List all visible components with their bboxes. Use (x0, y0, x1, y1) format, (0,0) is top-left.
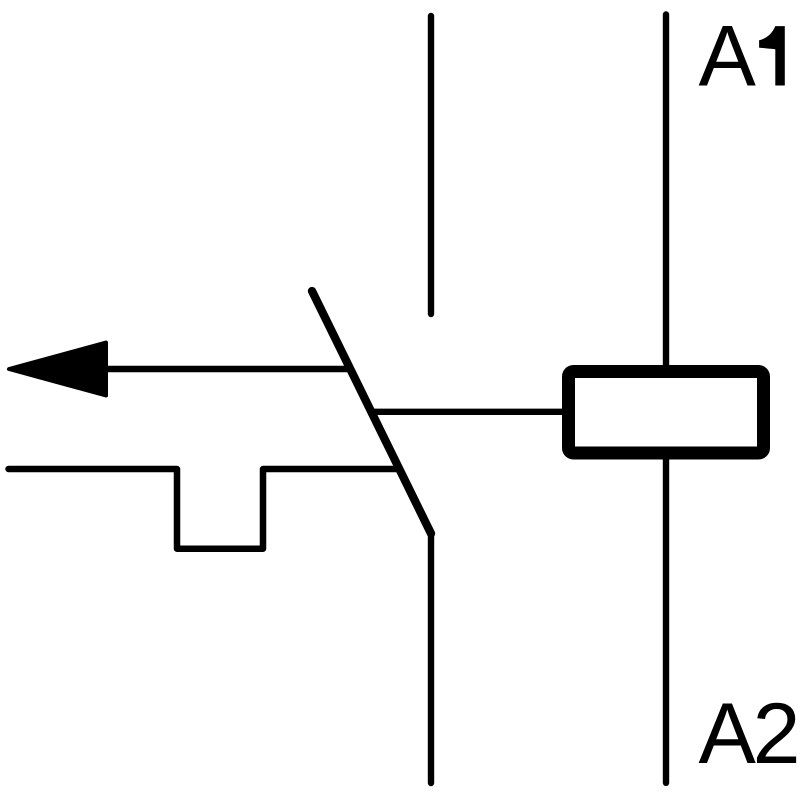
wire: coil terminal A2 (663, 458, 669, 783)
actuator arrow shaft (60, 366, 351, 372)
switch contact blade (diagonal) (312, 291, 431, 534)
actuator arrow head (9, 343, 106, 396)
svg-text:A: A (699, 686, 757, 782)
wire: contact bottom terminal (428, 534, 434, 784)
wire: contact to coil (373, 409, 565, 415)
wire: coil terminal A1 (663, 15, 669, 368)
coil (operating coil) (569, 372, 764, 454)
svg-text:2: 2 (753, 686, 800, 782)
mechanical latch notch line (9, 469, 397, 549)
svg-text:A: A (699, 9, 757, 105)
wire: contact top terminal (428, 16, 434, 314)
